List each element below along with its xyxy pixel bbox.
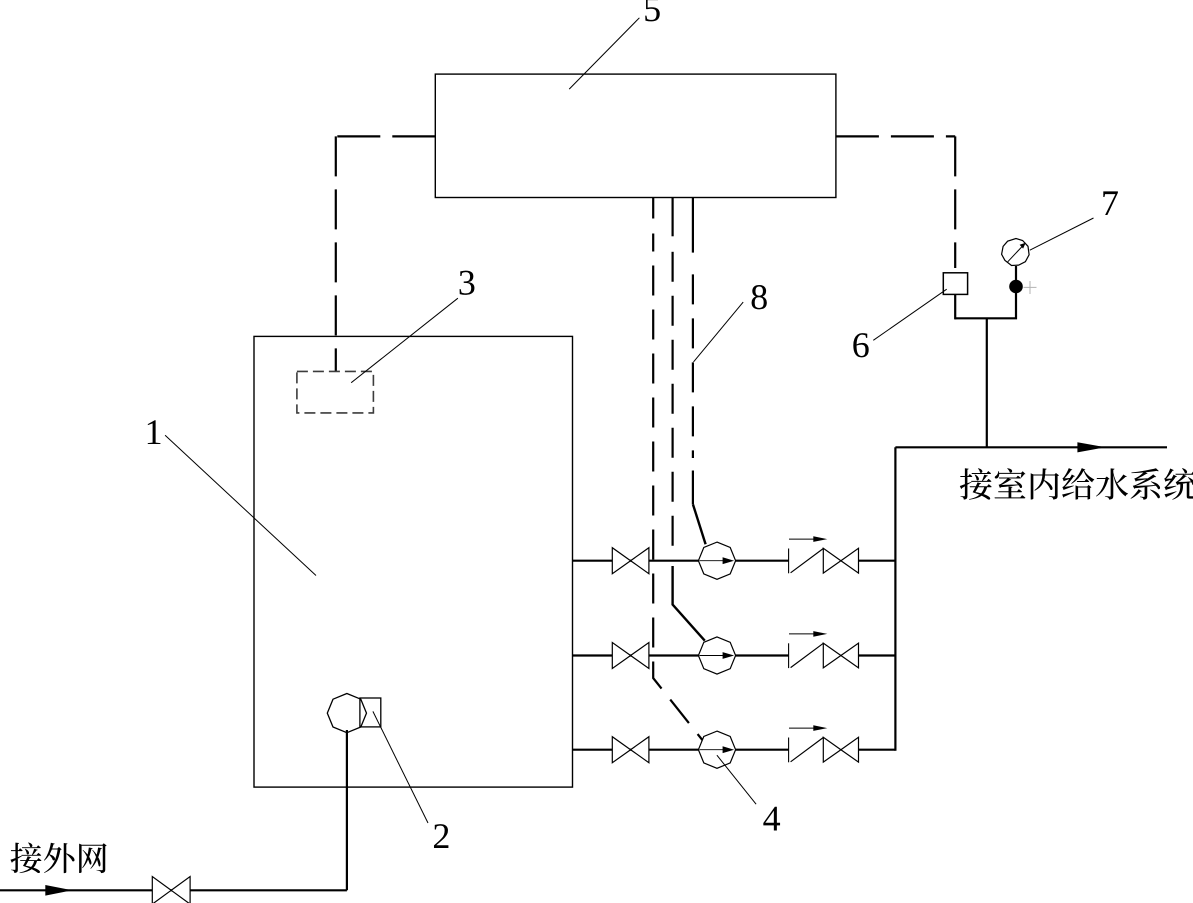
branch pipe 1 (top) — [573, 560, 789, 562]
leader line to float valve 2 — [373, 711, 428, 823]
gate valve on branch 3 — [612, 737, 630, 763]
leader line to gauge 7 — [1030, 218, 1094, 250]
dashed control line drop to sensor 3 — [335, 136, 337, 371]
label 4 — [763, 807, 780, 831]
outlet label text 接室内给水系统 — [960, 468, 992, 500]
riser pipe from inlet to float valve 2 — [346, 730, 348, 890]
leader line to box 5 — [569, 18, 639, 89]
pump 2 (circle with arrow) — [698, 637, 735, 674]
gauge needle — [1008, 245, 1024, 262]
label 8 — [752, 285, 767, 309]
branch pipe 2 (middle) — [573, 654, 789, 656]
tank 1 (storage tank rectangle) — [254, 336, 573, 787]
dashed control line from box 5 left to level sensor 3 — [336, 135, 436, 137]
label 7 — [1103, 191, 1118, 215]
pump 1 (circle with arrow) — [698, 542, 735, 579]
label 3 — [460, 271, 475, 295]
level sensor 3 dashed box inside tank — [297, 371, 374, 413]
inlet pipe from external network — [0, 889, 347, 891]
dashed control line to pump 1 — [692, 198, 694, 253]
check valve on branch 1 — [788, 549, 790, 574]
inlet label text 接外网 — [10, 843, 41, 874]
leader line to pump 4 — [717, 755, 756, 804]
float valve 2 actuator square — [360, 698, 381, 727]
pipe below sensor 6 — [954, 294, 956, 319]
check valve on branch 3 — [788, 738, 790, 763]
label 6 — [853, 333, 868, 357]
leader line to control line 8 — [694, 302, 744, 362]
dashed control line from box 5 right to pressure sensor 6 — [836, 135, 955, 137]
outlet flow arrow — [1077, 442, 1105, 452]
leader line to tank 1 — [165, 435, 316, 575]
label 2 — [434, 824, 448, 848]
pressure sensor 6 square — [943, 273, 967, 295]
header riser pipe — [894, 447, 896, 751]
gate valve on branch 2 — [612, 643, 630, 669]
pressure gauge 7 circle — [1002, 239, 1030, 266]
pump 3 (circle with arrow) — [698, 731, 735, 768]
check valve on branch 2 — [788, 643, 790, 668]
U pipe bottom — [955, 266, 1016, 318]
branch pipe 3 (bottom) — [573, 749, 789, 751]
black dot junction on gauge stem — [1009, 280, 1023, 294]
label 1 — [148, 420, 161, 444]
label 5 — [645, 0, 660, 21]
leader line to sensor 6 — [873, 289, 946, 340]
dashed control line drop to sensor 6 — [954, 136, 956, 268]
control box 5 rectangle — [435, 74, 836, 197]
dashed control line to pump 3 — [652, 198, 654, 219]
dashed control line to pump 2 — [671, 198, 673, 237]
leader line to sensor 3 — [351, 298, 458, 383]
outlet drop pipe from U to outlet main — [986, 318, 988, 447]
outlet main pipe — [895, 446, 1167, 448]
float valve 2 (circle) — [327, 694, 366, 733]
gate valve on branch 1 — [612, 548, 630, 574]
inlet flow arrow — [45, 885, 72, 896]
light crosshair marker — [1024, 281, 1037, 294]
inlet gate valve — [152, 877, 171, 903]
